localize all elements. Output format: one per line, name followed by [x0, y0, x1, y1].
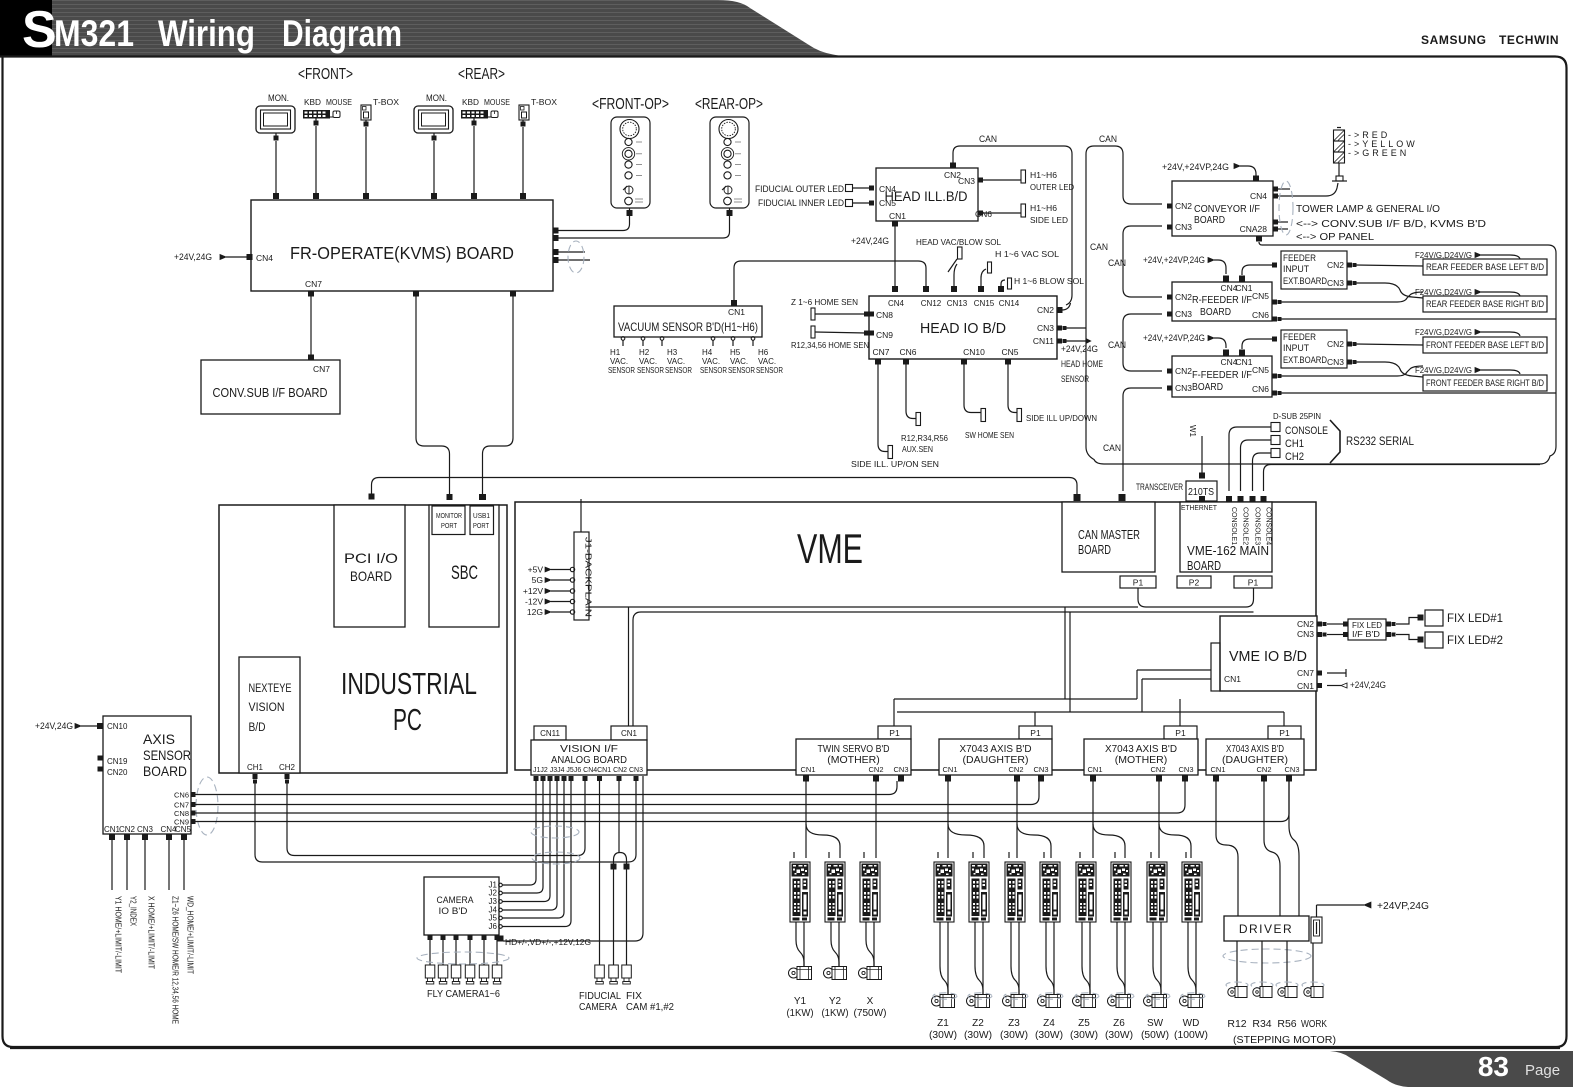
svg-text:HEAD VAC/BLOW SOL: HEAD VAC/BLOW SOL	[916, 237, 1001, 247]
svg-text:SAMSUNG: SAMSUNG	[1421, 33, 1487, 47]
svg-text:P1: P1	[889, 728, 900, 738]
svg-text:+5V: +5V	[528, 565, 544, 575]
svg-text:H5: H5	[730, 348, 741, 357]
svg-text:F24V/G,D24V/G: F24V/G,D24V/G	[1415, 365, 1472, 375]
svg-text:R12,R34,R56: R12,R34,R56	[901, 433, 948, 443]
svg-text:REAR FEEDER BASE RIGHT B/D: REAR FEEDER BASE RIGHT B/D	[1426, 299, 1544, 309]
svg-text:CN7: CN7	[872, 347, 889, 357]
svg-text:CN1: CN1	[1087, 765, 1102, 774]
svg-text:(750W): (750W)	[854, 1008, 887, 1019]
svg-text:P1: P1	[1248, 578, 1259, 588]
svg-text:F24V/G,D24V/G: F24V/G,D24V/G	[1415, 287, 1472, 297]
svg-text:CONV.SUB I/F BOARD: CONV.SUB I/F BOARD	[213, 386, 328, 400]
svg-text:CN6: CN6	[174, 791, 189, 800]
svg-text:+24V,24G: +24V,24G	[1350, 680, 1386, 690]
svg-text:MON.: MON.	[268, 93, 289, 104]
svg-text:I/F B'D: I/F B'D	[1352, 630, 1380, 639]
svg-text:FIDUCIAL OUTER LED: FIDUCIAL OUTER LED	[755, 184, 844, 194]
svg-text:Z1~Z6 HOME/SW HOME/R 12,34,56: Z1~Z6 HOME/SW HOME/R 12,34,56 HOME	[171, 896, 180, 1024]
svg-text:HEAD ILL.B/D: HEAD ILL.B/D	[885, 188, 968, 204]
svg-text:CN5: CN5	[1252, 291, 1269, 301]
svg-text:SBC: SBC	[451, 563, 478, 584]
svg-text:BOARD: BOARD	[143, 763, 187, 779]
svg-text:CN3: CN3	[137, 825, 154, 834]
svg-text:TRANSCEIVER: TRANSCEIVER	[1136, 482, 1183, 492]
svg-text:MON.: MON.	[426, 93, 447, 104]
svg-text:CH1: CH1	[1285, 438, 1304, 450]
svg-text:CN5: CN5	[1252, 365, 1269, 375]
svg-text:D-SUB 25PIN: D-SUB 25PIN	[1273, 412, 1321, 421]
svg-text:Z 1~6 HOME SEN: Z 1~6 HOME SEN	[791, 297, 858, 307]
svg-text:IO B'D: IO B'D	[439, 906, 468, 917]
svg-text:CN1: CN1	[1210, 765, 1225, 774]
svg-text:OUTER LED: OUTER LED	[1030, 182, 1074, 192]
svg-text:CAMERA: CAMERA	[579, 1001, 617, 1013]
svg-text:T-BOX: T-BOX	[373, 97, 399, 107]
svg-text:CN2: CN2	[1297, 619, 1314, 629]
svg-text:CN3: CN3	[1175, 309, 1192, 319]
svg-text:H4: H4	[702, 348, 713, 357]
svg-text:H2: H2	[639, 348, 650, 357]
svg-text:INPUT: INPUT	[1283, 343, 1309, 354]
svg-text:83: 83	[1478, 1051, 1509, 1082]
svg-text:BOARD: BOARD	[1192, 382, 1223, 393]
svg-text:CN11: CN11	[540, 729, 560, 738]
svg-text:FIDUCIAL INNER LED: FIDUCIAL INNER LED	[758, 198, 844, 208]
svg-text:+24V,24G: +24V,24G	[174, 252, 212, 262]
svg-text:CN2: CN2	[1256, 765, 1271, 774]
svg-text:CN3: CN3	[1327, 357, 1344, 367]
svg-text:REAR FEEDER BASE LEFT B/D: REAR FEEDER BASE LEFT B/D	[1426, 262, 1544, 272]
svg-text:H 1~6 VAC SOL: H 1~6 VAC SOL	[995, 249, 1059, 259]
svg-text:CAN: CAN	[1090, 242, 1108, 253]
svg-text:VISION I/F: VISION I/F	[560, 744, 618, 755]
svg-text:BOARD: BOARD	[1187, 559, 1221, 573]
svg-text:CN5: CN5	[1001, 347, 1018, 357]
svg-text:Z5: Z5	[1078, 1018, 1090, 1029]
svg-text:P1: P1	[1175, 728, 1186, 738]
svg-text:CH2: CH2	[1285, 451, 1304, 463]
svg-text:<REAR-OP>: <REAR-OP>	[695, 96, 763, 113]
svg-text:VAC.: VAC.	[667, 357, 685, 366]
svg-text:H6: H6	[758, 348, 769, 357]
svg-text:CN1: CN1	[1224, 674, 1241, 684]
svg-text:KBD: KBD	[304, 97, 321, 107]
svg-text:CNA28: CNA28	[1240, 224, 1268, 234]
svg-text:CN1: CN1	[942, 765, 957, 774]
svg-text:(30W): (30W)	[929, 1030, 957, 1041]
svg-text:WD_HOME/+LIMIT/-LIMIT: WD_HOME/+LIMIT/-LIMIT	[186, 896, 195, 974]
svg-text:CN1: CN1	[621, 729, 638, 738]
svg-text:SENSOR: SENSOR	[728, 366, 755, 375]
svg-text:(30W): (30W)	[1105, 1030, 1133, 1041]
svg-text:CN2: CN2	[1008, 765, 1023, 774]
svg-text:CAMERA: CAMERA	[437, 895, 475, 906]
svg-text:SENSOR: SENSOR	[665, 366, 692, 375]
svg-text:INPUT: INPUT	[1283, 264, 1309, 275]
svg-text:CN3: CN3	[893, 765, 908, 774]
svg-text:MOUSE: MOUSE	[484, 97, 510, 107]
svg-text:CN2: CN2	[119, 825, 136, 834]
svg-text:R56: R56	[1277, 1018, 1296, 1030]
svg-text:S: S	[22, 1, 57, 59]
svg-text:VAC.: VAC.	[702, 357, 720, 366]
svg-text:BOARD: BOARD	[1200, 307, 1231, 318]
svg-text:FEEDER: FEEDER	[1283, 332, 1316, 343]
svg-text:MONITOR: MONITOR	[436, 511, 462, 520]
svg-text:FRONT FEEDER BASE RIGHT B/D: FRONT FEEDER BASE RIGHT B/D	[1426, 378, 1544, 388]
svg-text:T-BOX: T-BOX	[531, 97, 557, 107]
svg-text:CAN: CAN	[1103, 443, 1121, 454]
svg-text:ETHERNET: ETHERNET	[1181, 503, 1217, 512]
svg-text:<REAR>: <REAR>	[458, 66, 505, 83]
svg-text:FIX LED#2: FIX LED#2	[1447, 633, 1503, 647]
svg-text:CN12: CN12	[921, 299, 942, 308]
svg-text:SW HOME SEN: SW HOME SEN	[965, 430, 1014, 440]
svg-text:+24V,24G: +24V,24G	[1061, 344, 1098, 354]
svg-text:CN3: CN3	[1297, 629, 1314, 639]
svg-text:CN7: CN7	[305, 279, 322, 289]
svg-text:J1J2 J3J4 J5J6 CN4CN1 CN2 C: J1J2 J3J4 J5J6 CN4CN1 CN2 CN3	[533, 765, 643, 774]
svg-text:SENSOR: SENSOR	[143, 747, 191, 763]
svg-text:CN4: CN4	[1250, 191, 1267, 201]
svg-text:CN4: CN4	[256, 253, 273, 263]
svg-text:FRONT FEEDER BASE LEFT B/D: FRONT FEEDER BASE LEFT B/D	[1426, 340, 1544, 350]
svg-text:(30W): (30W)	[964, 1030, 992, 1041]
svg-text:R34: R34	[1252, 1018, 1271, 1030]
svg-text:USB1: USB1	[473, 511, 490, 520]
svg-text:SENSOR: SENSOR	[608, 366, 635, 375]
svg-text:CN4: CN4	[879, 184, 896, 194]
svg-text:H1: H1	[610, 348, 621, 357]
svg-text:SW: SW	[1147, 1018, 1164, 1029]
svg-text:CN3: CN3	[1327, 278, 1344, 288]
svg-text:MOUSE: MOUSE	[326, 97, 352, 107]
svg-text:<--> CONV.SUB I/F B/D, KVMS B': <--> CONV.SUB I/F B/D, KVMS B'D	[1296, 218, 1486, 230]
svg-text:CN15: CN15	[974, 299, 995, 308]
svg-text:VACUUM SENSOR B'D(H1~H6): VACUUM SENSOR B'D(H1~H6)	[618, 320, 758, 334]
svg-text:(30W): (30W)	[1070, 1030, 1098, 1041]
svg-text:FLY CAMERA1~6: FLY CAMERA1~6	[427, 988, 500, 1000]
svg-text:F24V/G,D24V/G: F24V/G,D24V/G	[1415, 250, 1472, 260]
svg-text:CN20: CN20	[107, 768, 128, 777]
svg-text:CN1: CN1	[800, 765, 815, 774]
svg-text:CN2: CN2	[1037, 305, 1054, 315]
svg-text:DRIVER: DRIVER	[1239, 922, 1293, 936]
svg-text:+24V,+24VP,24G: +24V,+24VP,24G	[1143, 333, 1205, 343]
svg-text:VAC.: VAC.	[758, 357, 776, 366]
svg-text:(1KW): (1KW)	[822, 1008, 849, 1019]
svg-text:H 1~6 BLOW SOL: H 1~6 BLOW SOL	[1014, 276, 1084, 286]
svg-text:CN2: CN2	[868, 765, 883, 774]
svg-text:BOARD: BOARD	[350, 568, 392, 584]
svg-text:CN9: CN9	[876, 330, 893, 340]
svg-text:CN5: CN5	[175, 825, 192, 834]
svg-text:Z3: Z3	[1008, 1018, 1020, 1029]
svg-text:CN2: CN2	[1175, 201, 1192, 211]
svg-text:CN1: CN1	[889, 211, 906, 221]
svg-text:BOARD: BOARD	[1078, 542, 1111, 557]
svg-text:Z4: Z4	[1043, 1018, 1055, 1029]
svg-text:Y2_INDEX: Y2_INDEX	[129, 896, 138, 927]
svg-text:CONSOLE4: CONSOLE4	[1265, 507, 1272, 545]
svg-text:VAC.: VAC.	[610, 357, 628, 366]
svg-text:CN1: CN1	[728, 307, 745, 317]
svg-text:TECHWIN: TECHWIN	[1499, 33, 1559, 47]
svg-text:HEAD IO B/D: HEAD IO B/D	[920, 321, 1006, 337]
svg-text:(100W): (100W)	[1174, 1030, 1208, 1041]
svg-text:Wiring: Wiring	[158, 13, 255, 54]
svg-text:CN8: CN8	[876, 310, 893, 320]
svg-text:<FRONT>: <FRONT>	[298, 66, 353, 83]
svg-text:AUX.SEN: AUX.SEN	[902, 444, 933, 454]
svg-text:+24V,+24VP,24G: +24V,+24VP,24G	[1162, 162, 1229, 172]
svg-text:SENSOR: SENSOR	[1061, 374, 1089, 384]
svg-text:<--> OP PANEL: <--> OP PANEL	[1296, 231, 1374, 243]
svg-text:CONSOLE3: CONSOLE3	[1254, 507, 1261, 545]
svg-text:M321: M321	[54, 13, 134, 54]
svg-text:5G: 5G	[532, 575, 543, 585]
svg-text:P1: P1	[1279, 728, 1290, 738]
svg-text:(STEPPING MOTOR): (STEPPING MOTOR)	[1233, 1034, 1336, 1046]
svg-text:SENSOR: SENSOR	[700, 366, 727, 375]
svg-text:AXIS: AXIS	[143, 731, 175, 747]
svg-text:CN1: CN1	[1235, 283, 1252, 293]
svg-text:CN3: CN3	[1175, 383, 1192, 393]
svg-text:RS232 SERIAL: RS232 SERIAL	[1346, 434, 1414, 448]
svg-text:CN3: CN3	[1175, 222, 1192, 232]
svg-text:CAN: CAN	[979, 134, 997, 145]
svg-text:VAC.: VAC.	[730, 357, 748, 366]
svg-text:VISION: VISION	[249, 702, 285, 714]
svg-text:CN7: CN7	[1297, 668, 1314, 678]
svg-text:BOARD: BOARD	[1194, 215, 1225, 226]
svg-text:+24VP,24G: +24VP,24G	[1377, 901, 1429, 912]
svg-text:CONSOLE1: CONSOLE1	[1230, 507, 1237, 545]
svg-text:CN3: CN3	[1284, 765, 1299, 774]
svg-text:J1-BACKPLAIN: J1-BACKPLAIN	[584, 537, 593, 617]
svg-text:VAC.: VAC.	[639, 357, 657, 366]
svg-text:INDUSTRIAL: INDUSTRIAL	[341, 666, 477, 701]
svg-text:CN2: CN2	[1175, 292, 1192, 302]
svg-text:(30W): (30W)	[1000, 1030, 1028, 1041]
svg-text:VME: VME	[797, 525, 863, 572]
svg-text:FEEDER: FEEDER	[1283, 253, 1316, 264]
svg-text:+24V,24G: +24V,24G	[35, 721, 73, 731]
svg-text:PORT: PORT	[473, 521, 489, 530]
svg-text:CN19: CN19	[107, 757, 128, 766]
svg-text:TOWER LAMP & GENERAL I/O: TOWER LAMP & GENERAL I/O	[1296, 203, 1440, 215]
svg-text:F24V/G,D24V/G: F24V/G,D24V/G	[1415, 327, 1472, 337]
svg-text:Y1 HOME/+LIMIT/-LIMIT: Y1 HOME/+LIMIT/-LIMIT	[114, 896, 123, 973]
svg-text:VME-162 MAIN: VME-162 MAIN	[1187, 544, 1269, 558]
svg-text:CAN: CAN	[1108, 340, 1126, 351]
svg-text:R12: R12	[1227, 1018, 1246, 1030]
svg-text:CONSOLE: CONSOLE	[1285, 425, 1328, 437]
svg-text:CAN: CAN	[1099, 134, 1117, 145]
svg-text:CN6: CN6	[1252, 310, 1269, 320]
svg-text:HD+/-,VD+/-,+12V,12G: HD+/-,VD+/-,+12V,12G	[505, 938, 591, 947]
svg-text:CN1: CN1	[1297, 681, 1314, 691]
svg-text:EXT.BOARD: EXT.BOARD	[1283, 276, 1327, 287]
svg-text:VME IO B/D: VME IO B/D	[1229, 649, 1307, 665]
svg-text:CN1: CN1	[1235, 357, 1252, 367]
svg-text:CN5: CN5	[879, 198, 896, 208]
svg-text:+24V,24G: +24V,24G	[851, 236, 889, 246]
svg-text:R12,34,56 HOME SEN: R12,34,56 HOME SEN	[791, 340, 869, 350]
svg-text:PCI I/O: PCI I/O	[344, 550, 398, 566]
svg-text:-12V: -12V	[525, 597, 543, 607]
svg-text:Page: Page	[1525, 1062, 1560, 1079]
svg-text:CONVEYOR I/F: CONVEYOR I/F	[1194, 204, 1260, 215]
svg-text:CN6: CN6	[975, 209, 992, 219]
svg-text:CN3: CN3	[1178, 765, 1193, 774]
svg-text:FR-OPERATE(KVMS) BOARD: FR-OPERATE(KVMS) BOARD	[290, 243, 514, 263]
svg-text:P1: P1	[1030, 728, 1041, 738]
svg-text:CAM #1,#2: CAM #1,#2	[626, 1001, 674, 1013]
svg-text:CN3: CN3	[958, 176, 975, 186]
svg-text:CN11: CN11	[1033, 336, 1054, 346]
svg-text:CN6: CN6	[1252, 384, 1269, 394]
svg-text:(30W): (30W)	[1035, 1030, 1063, 1041]
svg-text:P2: P2	[1189, 578, 1200, 588]
svg-text:CN10: CN10	[963, 347, 985, 357]
svg-text:FIX LED: FIX LED	[1352, 621, 1382, 630]
svg-text:CN7: CN7	[313, 364, 330, 374]
svg-text:NEXTEYE: NEXTEYE	[249, 683, 292, 695]
svg-text:CN13: CN13	[947, 299, 968, 308]
svg-text:<FRONT-OP>: <FRONT-OP>	[592, 96, 669, 113]
svg-text:Z2: Z2	[972, 1018, 984, 1029]
svg-text:CH1: CH1	[247, 763, 264, 772]
svg-text:KBD: KBD	[462, 97, 479, 107]
svg-text:PORT: PORT	[441, 521, 457, 530]
svg-text:Z6: Z6	[1113, 1018, 1125, 1029]
svg-text:SIDE ILL. UP/ON SEN: SIDE ILL. UP/ON SEN	[851, 459, 939, 469]
svg-text:Y2: Y2	[829, 996, 842, 1007]
svg-text:CONSOLE2: CONSOLE2	[1242, 507, 1249, 545]
svg-text:F-FEEDER I/F: F-FEEDER I/F	[1192, 370, 1252, 381]
svg-text:B/D: B/D	[249, 722, 266, 734]
svg-text:X: X	[867, 996, 874, 1007]
svg-text:CN14: CN14	[999, 299, 1020, 308]
svg-text:H1~H6: H1~H6	[1030, 170, 1057, 180]
svg-text:WD: WD	[1183, 1018, 1200, 1029]
svg-text:H1~H6: H1~H6	[1030, 203, 1057, 213]
svg-text:CN6: CN6	[899, 347, 916, 357]
svg-text:EXT.BOARD: EXT.BOARD	[1283, 355, 1327, 366]
svg-text:+24V,+24VP,24G: +24V,+24VP,24G	[1143, 255, 1205, 265]
svg-text:Z1: Z1	[937, 1018, 949, 1029]
svg-text:J6: J6	[489, 922, 498, 931]
svg-text:P1: P1	[1133, 578, 1144, 588]
svg-text:CN2: CN2	[1150, 765, 1165, 774]
svg-text:CN2: CN2	[1175, 366, 1192, 376]
svg-text:Diagram: Diagram	[282, 13, 402, 54]
svg-text:CN2: CN2	[1327, 260, 1344, 270]
svg-text:CN4: CN4	[888, 299, 905, 308]
svg-text:+12V: +12V	[523, 586, 543, 596]
svg-text:(1KW): (1KW)	[787, 1008, 814, 1019]
svg-text:12G: 12G	[527, 607, 543, 617]
svg-text:CH2: CH2	[279, 763, 296, 772]
svg-text:H3: H3	[667, 348, 678, 357]
svg-text:(50W): (50W)	[1141, 1030, 1169, 1041]
svg-text:Y1: Y1	[794, 996, 807, 1007]
svg-text:SENSOR: SENSOR	[637, 366, 664, 375]
svg-text:W1: W1	[1188, 425, 1197, 438]
svg-text:X HOME/+LIMIT/-LIMIT: X HOME/+LIMIT/-LIMIT	[147, 896, 156, 969]
svg-text:->GREEN: ->GREEN	[1348, 148, 1409, 158]
svg-text:(DAUGHTER): (DAUGHTER)	[1222, 754, 1288, 766]
svg-text:CN3: CN3	[1037, 323, 1054, 333]
svg-text:SENSOR: SENSOR	[756, 366, 783, 375]
svg-text:CAN: CAN	[1108, 258, 1126, 269]
svg-text:HEAD HOME: HEAD HOME	[1061, 359, 1103, 369]
svg-text:WORK: WORK	[1301, 1018, 1327, 1030]
svg-text:FIX LED#1: FIX LED#1	[1447, 611, 1503, 625]
svg-text:CAN MASTER: CAN MASTER	[1078, 527, 1140, 542]
svg-text:CN3: CN3	[1033, 765, 1048, 774]
svg-text:CN2: CN2	[1327, 339, 1344, 349]
svg-text:CN10: CN10	[107, 722, 128, 731]
svg-text:SIDE LED: SIDE LED	[1030, 215, 1068, 225]
svg-text:PC: PC	[393, 702, 422, 737]
svg-text:R-FEEDER I/F: R-FEEDER I/F	[1192, 295, 1252, 306]
